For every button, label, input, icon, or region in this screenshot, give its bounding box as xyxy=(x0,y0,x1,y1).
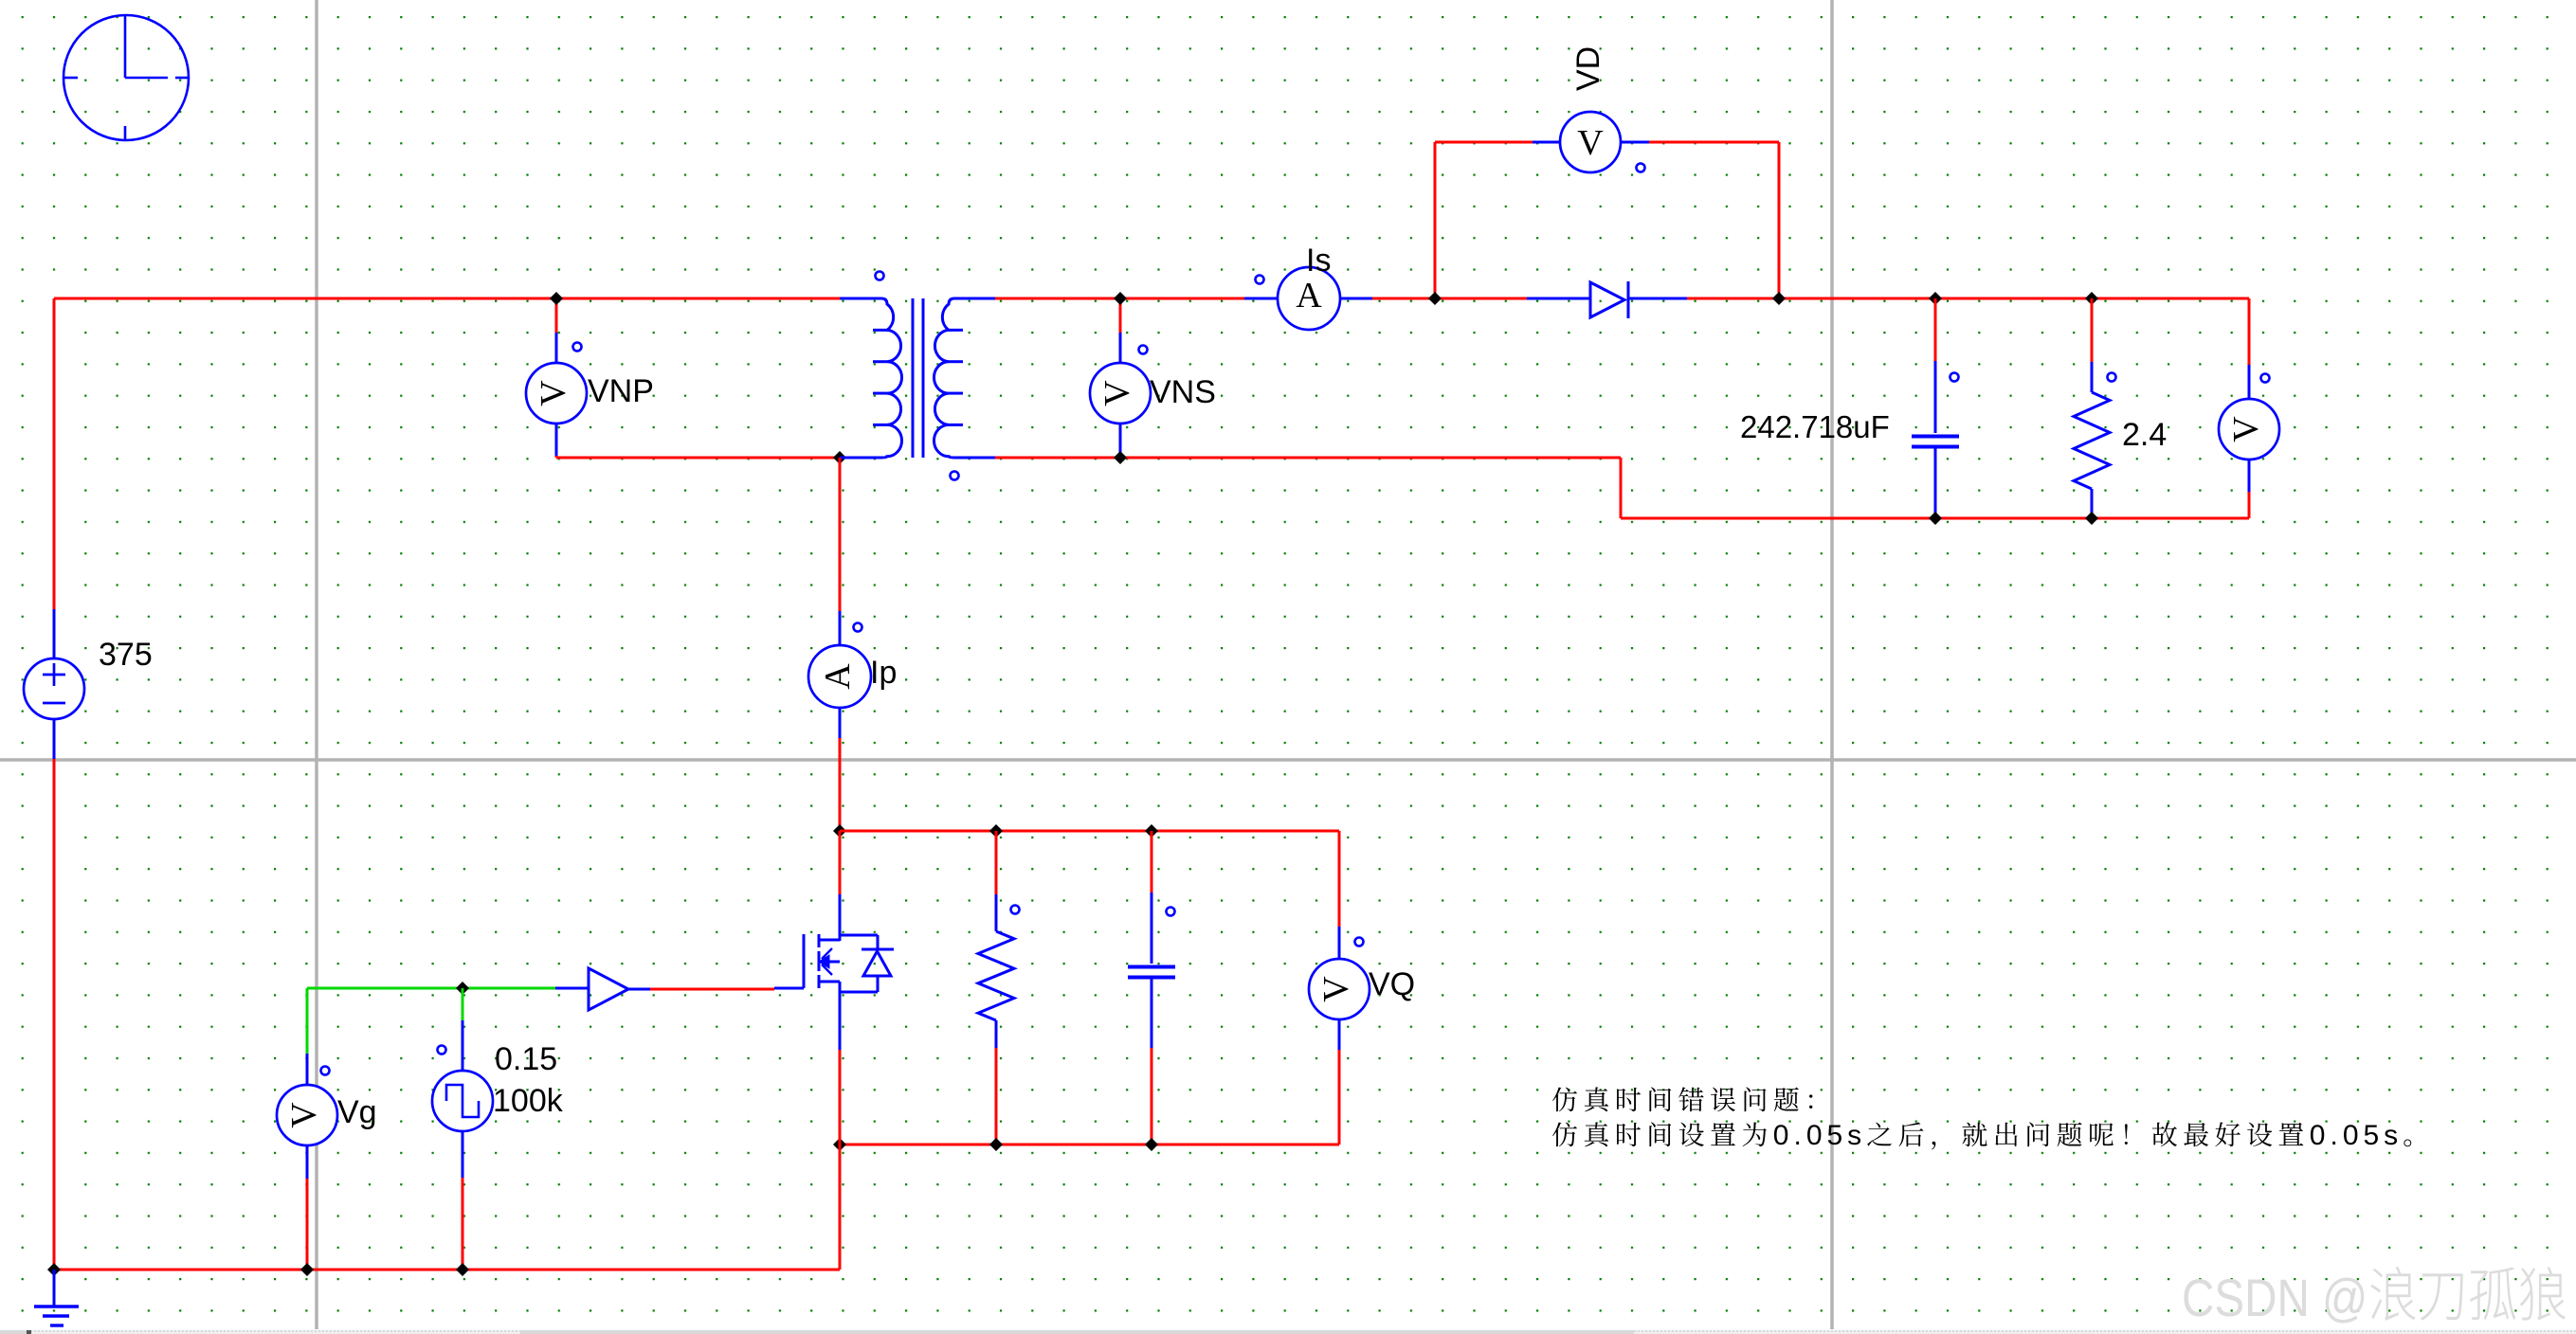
wire Vg to ground rail xyxy=(306,1179,309,1270)
simulation control clock icon xyxy=(63,15,189,140)
label VD rotated xyxy=(1570,46,1606,91)
wire VD loop right vertical xyxy=(1778,142,1781,298)
resistor R1 2.4 xyxy=(2074,298,2116,518)
svg-text:375: 375 xyxy=(99,637,153,673)
wire left rail bottom xyxy=(53,759,56,1270)
node dot cap bottom xyxy=(1929,512,1942,525)
label 242.718uF xyxy=(1740,409,1890,444)
wire VD loop top right xyxy=(1649,141,1779,144)
node dot primary bottom xyxy=(833,451,846,464)
dc voltage source V1 375 xyxy=(24,609,84,759)
voltmeter probe VQ xyxy=(1309,927,1370,1050)
node dot res bottom xyxy=(2085,512,2098,525)
svg-text:0.05s: 0.05s xyxy=(2310,1120,2403,1151)
wire green Vg drop xyxy=(306,988,309,1054)
svg-text:V: V xyxy=(2226,416,2266,442)
ground symbol xyxy=(34,1270,79,1325)
svg-text:V: V xyxy=(1098,380,1137,406)
bottom scrollbar xyxy=(0,1330,2576,1334)
node dot snubber top C xyxy=(1145,824,1158,838)
wire VQ column bottom xyxy=(1338,1050,1341,1145)
wire VQ column top xyxy=(1338,831,1341,927)
node dot snubber top R xyxy=(989,824,1003,838)
node dot gate net xyxy=(456,982,469,995)
wire top rail from source to transformer primary xyxy=(54,297,840,300)
node dot VNP top xyxy=(550,292,563,305)
node dot res top xyxy=(2085,292,2098,305)
svg-text:VQ: VQ xyxy=(1369,966,1415,1002)
svg-text:Vg: Vg xyxy=(337,1094,377,1130)
node dot VD right xyxy=(1772,292,1786,305)
gate driver buffer U1 xyxy=(555,968,650,1010)
node dot VNS top xyxy=(1114,292,1127,305)
node dot snubber bottom R xyxy=(989,1138,1003,1151)
node dot Vg ground xyxy=(300,1263,314,1276)
label VNS xyxy=(1150,374,1216,410)
wire VNS top stub xyxy=(1119,298,1122,333)
wire drain from snubber rail xyxy=(839,831,842,941)
node dot snubber bottom left xyxy=(833,1138,846,1151)
svg-text:VNP: VNP xyxy=(588,373,654,409)
node dot Vsq ground xyxy=(456,1263,469,1276)
resistor R2 snubber xyxy=(978,831,1020,1145)
voltmeter VD xyxy=(1533,112,1649,172)
label Ip xyxy=(870,655,897,691)
wire left rail top xyxy=(53,298,56,609)
wire output V right loop xyxy=(2248,298,2251,518)
svg-text:V: V xyxy=(1316,976,1356,1002)
svg-text:2.4: 2.4 xyxy=(2122,417,2167,453)
svg-text:0.15: 0.15 xyxy=(495,1041,557,1077)
wire top rail diode to output corner xyxy=(1687,297,2249,300)
page boundary gray vertical line left xyxy=(315,0,318,1329)
ammeter Is xyxy=(1244,267,1372,330)
page boundary gray horizontal line xyxy=(0,758,2576,762)
svg-text:Is: Is xyxy=(1306,243,1331,279)
voltmeter probe VNP xyxy=(526,333,587,456)
ammeter Ip xyxy=(808,611,871,738)
label VNP xyxy=(588,373,654,409)
annotation chinese line1 xyxy=(1552,1087,1812,1111)
node dot ground tap xyxy=(47,1263,61,1276)
voltmeter probe VNS xyxy=(1090,333,1151,458)
svg-text:100k: 100k xyxy=(493,1083,564,1119)
wire VD loop top left xyxy=(1435,141,1533,144)
wire top rail Is to diode xyxy=(1372,297,1527,300)
svg-text:A: A xyxy=(818,663,858,690)
label VQ xyxy=(1369,966,1415,1002)
wire green square source drop xyxy=(462,988,464,1020)
label 100k xyxy=(493,1083,564,1119)
label 375 xyxy=(99,637,153,673)
svg-text:Ip: Ip xyxy=(870,655,897,691)
node dot cap top xyxy=(1929,292,1942,305)
wire primary bottom rail xyxy=(556,456,840,458)
voltmeter probe Vo xyxy=(2219,365,2279,492)
svg-text:242.718uF: 242.718uF xyxy=(1740,409,1890,444)
wire Ip to snubber rail xyxy=(839,738,842,831)
wire ground rail xyxy=(54,1269,840,1271)
wire square source to ground rail xyxy=(462,1178,464,1270)
svg-text:CSDN @: CSDN @ xyxy=(2182,1269,2367,1327)
svg-text:A: A xyxy=(1296,276,1322,315)
squarewave source Vsq xyxy=(432,1020,493,1178)
diode D1 xyxy=(1527,281,1687,318)
svg-text:0.05s: 0.05s xyxy=(1773,1120,1866,1151)
capacitor C2 snubber xyxy=(1128,831,1175,1145)
svg-text:V: V xyxy=(1577,123,1604,163)
annotation chinese line2 xyxy=(1552,1120,2411,1151)
transformer T1 xyxy=(840,272,995,480)
wire source to bottom xyxy=(839,982,842,1145)
node dot VNS bottom xyxy=(1114,451,1127,464)
wire top rail secondary to Is ammeter xyxy=(995,297,1244,300)
label 0.15 xyxy=(495,1041,557,1077)
svg-text:VD: VD xyxy=(1570,46,1606,91)
label Is xyxy=(1306,243,1331,279)
wire snubber bottom rail xyxy=(840,1144,1339,1146)
node dot snubber top left xyxy=(833,824,846,838)
wire VD loop left vertical xyxy=(1434,142,1437,298)
wire snubber top rail xyxy=(840,830,1339,833)
svg-text:VNS: VNS xyxy=(1150,374,1216,410)
label 2.4 xyxy=(2122,417,2167,453)
wire primary to Ip xyxy=(839,458,842,611)
svg-text:V: V xyxy=(284,1102,324,1128)
capacitor C1 242.718uF xyxy=(1912,298,1959,518)
node dot VD left xyxy=(1428,292,1442,305)
wire gate red segment xyxy=(650,988,774,991)
voltmeter probe Vg xyxy=(277,1054,337,1179)
wire green gate net horizontal xyxy=(307,987,555,990)
wire VNP top stub xyxy=(555,298,558,333)
wire secondary bottom rail xyxy=(995,458,2249,518)
page boundary gray vertical line right xyxy=(1830,0,1834,1329)
mosfet Q1 xyxy=(774,934,894,992)
wire mosfet source to ground rail xyxy=(839,1145,842,1270)
svg-text:V: V xyxy=(534,380,573,406)
watermark CSDN xyxy=(2182,1267,2566,1328)
node dot snubber bottom C xyxy=(1145,1138,1158,1151)
label Vg xyxy=(337,1094,377,1130)
